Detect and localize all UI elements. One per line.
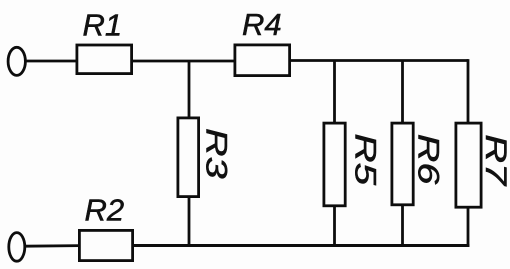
resistor R5 (324, 123, 345, 206)
wire down to R7 (467, 59, 470, 124)
wire R1 to R4 (node A tee) (132, 60, 235, 63)
wire T2 to R2 (25, 244, 80, 247)
wire down to R6 (401, 61, 404, 125)
svg-text:R3: R3 (200, 128, 233, 179)
svg-text:R2: R2 (85, 193, 125, 228)
wire down to R5 (333, 61, 336, 125)
svg-text:R1: R1 (83, 7, 123, 42)
wire R4 to top-right corner (290, 59, 468, 62)
resistor R4 (235, 45, 290, 76)
svg-text:R7: R7 (479, 134, 510, 187)
resistor R2 (79, 230, 132, 260)
wire T1 to R1 (25, 60, 77, 63)
bottom rail wire R2 to R7 (133, 244, 470, 247)
wire node A down to R3 (188, 61, 191, 119)
resistor R3 (178, 118, 199, 197)
svg-text:R4: R4 (242, 7, 282, 42)
resistor R6 (392, 123, 413, 205)
wire R3 to bottom rail (188, 196, 191, 246)
resistor R7 (456, 123, 481, 207)
resistor R1 (77, 45, 132, 74)
terminal T2 (bottom-left input) (9, 233, 25, 262)
terminal T1 (top-left input) (8, 47, 25, 75)
svg-text:R5: R5 (349, 133, 383, 185)
wire R6 to bottom rail (401, 204, 404, 246)
wire R7 to bottom rail (467, 207, 470, 247)
wire R5 to bottom rail (333, 205, 336, 246)
svg-text:R6: R6 (412, 134, 445, 185)
